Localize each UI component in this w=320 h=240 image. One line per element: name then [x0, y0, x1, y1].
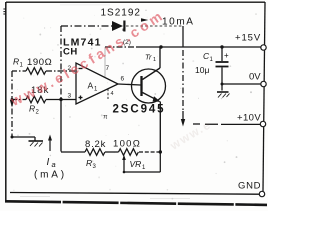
svg-text:GND: GND [238, 181, 261, 192]
svg-text:1S2192: 1S2192 [101, 8, 141, 19]
svg-text:π: π [103, 114, 108, 121]
svg-text:7: 7 [106, 65, 110, 72]
svg-text:2SC945: 2SC945 [113, 104, 166, 116]
svg-text:3: 3 [68, 93, 72, 100]
svg-text:10μ: 10μ [195, 65, 209, 75]
svg-text:VR: VR [130, 159, 142, 169]
svg-text:+15V: +15V [235, 33, 261, 44]
svg-text:R: R [29, 104, 35, 114]
svg-text:10mA: 10mA [162, 17, 195, 28]
svg-text:1: 1 [153, 57, 156, 63]
svg-text:190Ω: 190Ω [27, 57, 52, 68]
svg-text:CH: CH [63, 47, 78, 58]
svg-text:R: R [86, 158, 92, 168]
svg-text:0V: 0V [249, 72, 261, 83]
svg-text:4: 4 [111, 91, 114, 97]
svg-text:R: R [13, 57, 19, 67]
svg-text:+10V: +10V [237, 113, 261, 124]
svg-text:Tr: Tr [145, 53, 152, 62]
svg-text:A: A [88, 81, 94, 91]
svg-text:a: a [52, 160, 56, 169]
svg-text:(mA): (mA) [34, 170, 67, 181]
svg-text:I: I [47, 157, 50, 168]
svg-text:100Ω: 100Ω [113, 139, 141, 150]
svg-text:8.2k: 8.2k [85, 139, 106, 150]
svg-text:+: + [224, 51, 229, 60]
svg-text:6: 6 [121, 76, 125, 83]
